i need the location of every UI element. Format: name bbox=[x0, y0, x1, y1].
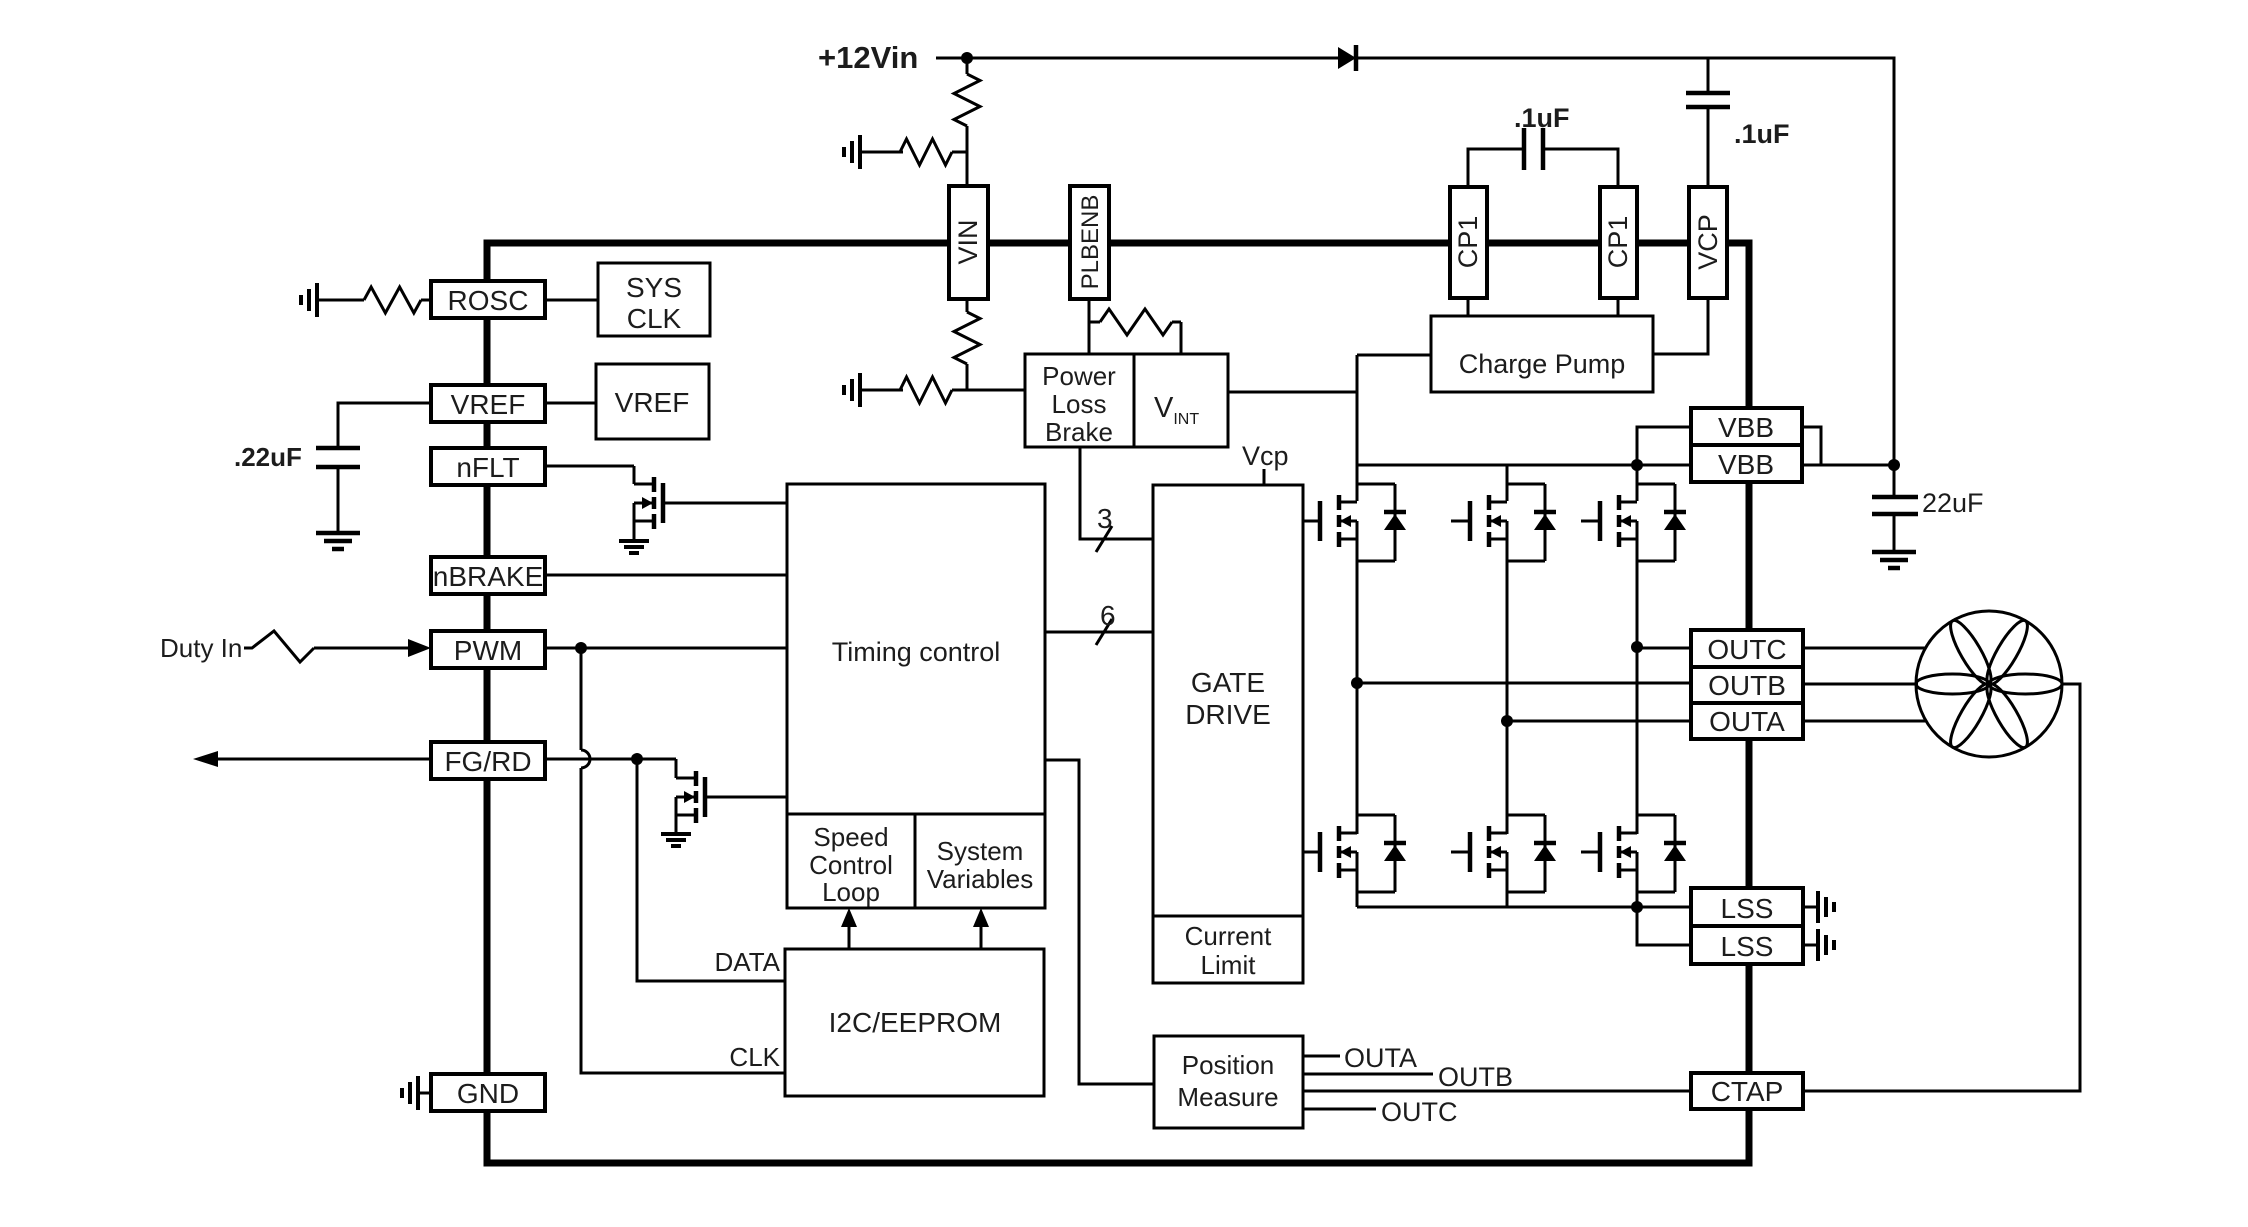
pin LSS (upper) bbox=[1691, 888, 1803, 926]
svg-text:VBB: VBB bbox=[1718, 412, 1774, 443]
svg-text:OUTB: OUTB bbox=[1708, 670, 1786, 701]
svg-text:CP1: CP1 bbox=[1453, 216, 1483, 269]
svg-text:OUTC: OUTC bbox=[1381, 1097, 1458, 1127]
svg-text:DATA: DATA bbox=[715, 947, 781, 977]
svg-text:VIN: VIN bbox=[953, 219, 983, 264]
wire VBB drain bus bbox=[1357, 464, 1691, 467]
wire CP1a to Charge Pump bbox=[1467, 298, 1470, 316]
node OUTC junction bbox=[1631, 641, 1643, 653]
wire OUTB tap bbox=[1357, 682, 1691, 685]
ground (Q2 source) bbox=[661, 832, 691, 836]
svg-text:ROSC: ROSC bbox=[448, 285, 529, 316]
wire VREF to bypass cap bbox=[338, 403, 431, 448]
transistor M1 (high side B) bbox=[1303, 520, 1320, 523]
wire VREF pin to VREF block bbox=[545, 402, 596, 405]
node OUTB junction bbox=[1351, 677, 1363, 689]
wire VCP reservoir-cap branch bbox=[1707, 58, 1710, 93]
wire leg2 (phase A) bbox=[1506, 465, 1509, 501]
block Speed Control Loop bbox=[787, 814, 915, 908]
wire +12V rail to top-right corner bbox=[967, 58, 1894, 465]
pin nFLT bbox=[431, 448, 545, 485]
pin PLBENB bbox=[1070, 186, 1109, 299]
wire CTAP to Position Measure bbox=[1303, 1090, 1691, 1093]
wire OUTC to motor bbox=[1803, 647, 1926, 650]
wire VCP to Charge Pump bbox=[1653, 298, 1708, 354]
node LSS junction bbox=[1631, 901, 1643, 913]
svg-text:.22uF: .22uF bbox=[234, 442, 302, 472]
capacitor C1 .22uF bbox=[316, 446, 360, 451]
wire PLBENB to Power Loss Brake bbox=[1088, 299, 1091, 354]
svg-text:3: 3 bbox=[1097, 503, 1113, 534]
wire OUTA tap bbox=[1507, 720, 1691, 723]
wire OUTC tap bbox=[1637, 647, 1691, 650]
svg-text:CLK: CLK bbox=[729, 1042, 780, 1072]
wire Timing control to Position Measure bbox=[1045, 760, 1154, 1084]
bus slash 6 bbox=[1096, 619, 1112, 645]
pin OUTA bbox=[1691, 703, 1803, 739]
diode D1 on +12V rail bbox=[1338, 47, 1356, 69]
wire Vcp stub bbox=[1263, 469, 1266, 487]
IC package outline bbox=[487, 243, 1749, 1163]
block System Variables bbox=[915, 814, 1045, 908]
capacitor C3 .1uF (CP1-CP1) bbox=[1522, 128, 1527, 170]
bus slash 3 bbox=[1096, 526, 1112, 552]
arrow I2C to System Variables bbox=[980, 925, 983, 949]
block I2C/EEPROM bbox=[785, 949, 1044, 1096]
block Timing control bbox=[787, 484, 1045, 814]
svg-text:Vcp: Vcp bbox=[1242, 441, 1289, 471]
svg-text:PLBENB: PLBENB bbox=[1077, 195, 1104, 290]
wire VINT to Charge Pump / VBB feed bbox=[1228, 391, 1357, 394]
wire +12Vin lead bbox=[936, 57, 967, 60]
ground (Q1 source) bbox=[619, 539, 649, 543]
wire VBB lower pin right bbox=[1802, 464, 1894, 467]
svg-text:Limit: Limit bbox=[1201, 950, 1257, 980]
wire motor center tap to CTAP bbox=[1803, 684, 2080, 1091]
svg-text:SYS: SYS bbox=[626, 272, 682, 303]
svg-text:.1uF: .1uF bbox=[1734, 119, 1790, 149]
wire CP1 flying-cap branch bbox=[1468, 149, 1522, 187]
svg-text:GATE: GATE bbox=[1191, 667, 1265, 698]
svg-text:CLK: CLK bbox=[627, 303, 682, 334]
resistor R2 (to ground) bbox=[900, 139, 952, 165]
svg-text:LSS: LSS bbox=[1721, 931, 1774, 962]
svg-text:nFLT: nFLT bbox=[456, 452, 519, 483]
wire ROSC to SYS CLK bbox=[545, 299, 598, 302]
noise source squiggle (Duty In) bbox=[244, 631, 314, 662]
svg-text:Duty In: Duty In bbox=[160, 633, 242, 663]
svg-text:Position: Position bbox=[1182, 1050, 1275, 1080]
svg-text:nBRAKE: nBRAKE bbox=[433, 561, 544, 592]
wire LSS source bus bbox=[1357, 906, 1691, 909]
ground (LSS lower) bbox=[1803, 944, 1818, 947]
pin ROSC bbox=[431, 281, 545, 318]
wire LSS lower pin bbox=[1637, 907, 1691, 945]
svg-text:CTAP: CTAP bbox=[1711, 1076, 1784, 1107]
svg-text:System: System bbox=[937, 836, 1024, 866]
transistor M2 (high side A) bbox=[1451, 520, 1470, 523]
svg-text:6: 6 bbox=[1100, 600, 1116, 631]
pin VCP bbox=[1689, 187, 1727, 298]
ground (VIN divider lower) bbox=[858, 373, 862, 407]
node VBB bus junction bbox=[1631, 459, 1643, 471]
pin VBB (lower) bbox=[1691, 445, 1802, 482]
pin LSS (lower) bbox=[1691, 926, 1803, 964]
block Current Limit bbox=[1153, 916, 1303, 983]
block SYS CLK bbox=[598, 263, 710, 336]
transistor Q1 (nFLT open drain) bbox=[633, 466, 636, 484]
svg-text:Control: Control bbox=[809, 850, 893, 880]
ground (C1) bbox=[316, 531, 360, 536]
capacitor C5 22uF bbox=[1893, 465, 1896, 497]
svg-text:I2C/EEPROM: I2C/EEPROM bbox=[829, 1007, 1002, 1038]
wire CP1b to Charge Pump bbox=[1617, 298, 1620, 316]
svg-text:DRIVE: DRIVE bbox=[1185, 699, 1271, 730]
svg-text:VBB: VBB bbox=[1718, 449, 1774, 480]
svg-text:Loop: Loop bbox=[822, 877, 880, 907]
pin PWM bbox=[431, 631, 545, 668]
pin nBRAKE bbox=[431, 557, 545, 594]
pin VREF bbox=[431, 385, 545, 422]
resistor R1 (+12V to VIN) bbox=[966, 58, 969, 74]
svg-text:Power: Power bbox=[1042, 361, 1116, 391]
transistor Q2 (FG/RD open drain) bbox=[675, 759, 678, 778]
svg-text:FG/RD: FG/RD bbox=[444, 746, 531, 777]
wire nBRAKE to Timing control bbox=[545, 574, 787, 577]
transistor M5 (low side A) bbox=[1451, 851, 1470, 854]
svg-text:CP1: CP1 bbox=[1603, 216, 1633, 269]
arrowhead into PWM bbox=[408, 639, 431, 657]
svg-text:22uF: 22uF bbox=[1922, 488, 1984, 518]
svg-text:Current: Current bbox=[1185, 921, 1272, 951]
svg-text:+12Vin: +12Vin bbox=[818, 40, 918, 75]
wire OUTB to motor bbox=[1803, 683, 1918, 686]
ground (ROSC) bbox=[315, 283, 319, 317]
ground (GND pin) bbox=[416, 1076, 420, 1110]
pin GND bbox=[431, 1074, 545, 1111]
resistor R6 (ROSC) bbox=[364, 287, 421, 313]
transistor M3 (high side C) bbox=[1581, 520, 1600, 523]
svg-text:VREF: VREF bbox=[451, 389, 526, 420]
node PWM junction bbox=[575, 642, 587, 654]
wire VBB upper pin left bbox=[1637, 427, 1691, 465]
pin VIN bbox=[949, 186, 988, 299]
pin CP1 (first) bbox=[1450, 187, 1487, 298]
node +12Vin junction bbox=[961, 52, 973, 64]
wire bus 6 (Timing to GATE DRIVE) bbox=[1045, 631, 1153, 634]
wire leg3 (phase C) bbox=[1636, 465, 1639, 501]
block VREF bbox=[596, 364, 709, 439]
wire nFLT to Q1 bbox=[545, 465, 634, 468]
block GATE DRIVE bbox=[1153, 485, 1303, 916]
motor (fan) bbox=[1916, 611, 2062, 757]
svg-text:Variables: Variables bbox=[927, 864, 1033, 894]
ground (C5) bbox=[1872, 550, 1916, 555]
svg-text:GND: GND bbox=[457, 1078, 519, 1109]
svg-text:Timing control: Timing control bbox=[832, 637, 1001, 667]
wire OUTB sense bbox=[1303, 1073, 1433, 1076]
svg-text:OUTB: OUTB bbox=[1438, 1062, 1513, 1092]
svg-text:VCP: VCP bbox=[1693, 214, 1723, 270]
pin OUTB bbox=[1691, 667, 1803, 703]
wire bus 3 (PLB to GATE DRIVE) bbox=[1080, 447, 1153, 539]
wire OUTC sense bbox=[1303, 1108, 1376, 1111]
wire OUTA sense bbox=[1303, 1055, 1340, 1058]
wire CLK (PWM node to I2C) with hop bbox=[580, 648, 583, 750]
wire FG/RD to Q2 bbox=[545, 758, 676, 761]
ground (LSS upper) bbox=[1803, 906, 1818, 909]
svg-text:LSS: LSS bbox=[1721, 893, 1774, 924]
node FG/RD junction bbox=[631, 753, 643, 765]
svg-text:OUTA: OUTA bbox=[1709, 706, 1785, 737]
ground (VIN divider upper) bbox=[858, 135, 862, 169]
pin VBB (upper) bbox=[1691, 408, 1802, 445]
node OUTA junction bbox=[1501, 715, 1513, 727]
wire divider to Power Loss Brake bbox=[967, 389, 1025, 392]
wire DATA (FG node to I2C) bbox=[637, 759, 785, 981]
wire PWM to Timing control bbox=[545, 647, 787, 650]
pin CP1 (second) bbox=[1600, 187, 1637, 298]
resistor R5 (PLBENB to VINT) bbox=[1089, 321, 1100, 324]
arrowhead FG/RD output bbox=[193, 751, 218, 767]
svg-text:Speed: Speed bbox=[813, 822, 888, 852]
wire VBB upper pin right bbox=[1802, 427, 1821, 465]
svg-text:OUTC: OUTC bbox=[1707, 634, 1786, 665]
pin FG/RD bbox=[431, 742, 545, 779]
svg-text:OUTA: OUTA bbox=[1344, 1043, 1417, 1073]
transistor M4 (low side B) bbox=[1303, 851, 1320, 854]
resistor R3 (VIN to PLB node) bbox=[966, 299, 969, 312]
arrow I2C to Speed Control Loop bbox=[848, 925, 851, 949]
wire leg1 (phase B) bbox=[1356, 465, 1359, 501]
svg-text:VREF: VREF bbox=[615, 387, 690, 418]
resistor R4 (to ground) bbox=[900, 377, 952, 403]
capacitor C4 .1uF (VCP) bbox=[1686, 91, 1730, 96]
pin CTAP bbox=[1691, 1073, 1803, 1109]
block Charge Pump bbox=[1431, 316, 1653, 392]
block VINT bbox=[1134, 354, 1228, 447]
pin OUTC bbox=[1691, 630, 1803, 667]
svg-text:Measure: Measure bbox=[1177, 1082, 1278, 1112]
block Position Measure bbox=[1154, 1036, 1303, 1128]
node VBB supply junction bbox=[1888, 459, 1900, 471]
wire OUTA to motor bbox=[1803, 720, 1927, 723]
svg-text:Loss: Loss bbox=[1052, 389, 1107, 419]
block Power Loss Brake bbox=[1025, 354, 1134, 447]
svg-text:Charge Pump: Charge Pump bbox=[1459, 349, 1626, 379]
svg-text:.1uF: .1uF bbox=[1514, 103, 1570, 133]
svg-text:Brake: Brake bbox=[1045, 417, 1113, 447]
transistor M6 (low side C) bbox=[1581, 851, 1600, 854]
svg-text:PWM: PWM bbox=[454, 635, 522, 666]
